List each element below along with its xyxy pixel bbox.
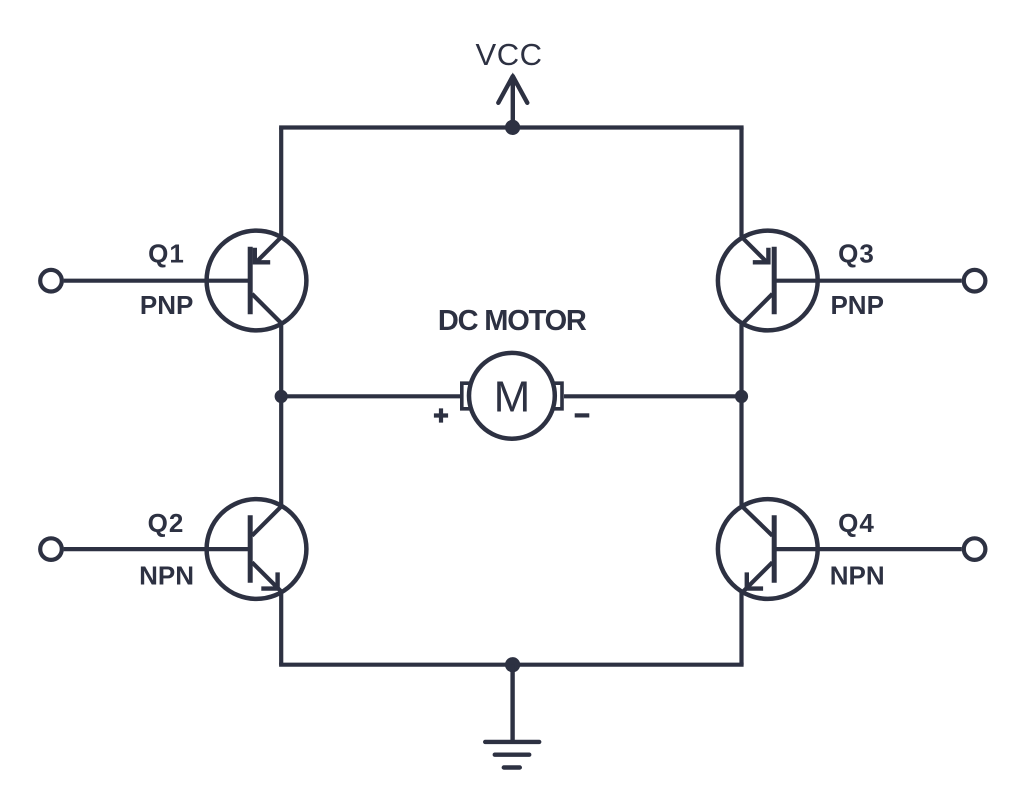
- wire right mid vertical (Q3 to node B): [739, 323, 743, 396]
- transistor Q2 (NPN, low-side left): [207, 499, 307, 599]
- Q1 collector diagonal: [252, 294, 283, 325]
- Q3 circle: [718, 231, 818, 331]
- Q4 collector diagonal: [741, 505, 772, 535]
- node A junction dot (left motor node): [275, 390, 288, 403]
- Q2 emitter arrow (points out): [261, 572, 277, 588]
- wire Q2 base lead: [64, 547, 250, 551]
- wire top VCC rail: [281, 125, 741, 129]
- svg-text:PNP: PNP: [140, 290, 193, 320]
- svg-text:Q3: Q3: [838, 238, 875, 268]
- svg-text:NPN: NPN: [830, 561, 885, 591]
- Q2 collector diagonal: [252, 505, 282, 535]
- Q4 base bar: [772, 515, 777, 582]
- wire left upper vertical (VCC to Q1 emitter): [279, 128, 283, 237]
- node ground junction dot: [505, 657, 520, 672]
- terminal input 4 (open circle): [964, 538, 986, 560]
- wire left lower vertical (node A to Q2): [279, 396, 283, 505]
- Q3 emitter arrow (points into base): [753, 248, 769, 262]
- svg-text:DC MOTOR: DC MOTOR: [438, 305, 587, 337]
- label plus polarity: [434, 408, 448, 422]
- wire bottom ground rail: [281, 663, 741, 667]
- wire right upper vertical (VCC to Q3 emitter): [739, 128, 743, 237]
- svg-text:M: M: [494, 373, 531, 422]
- label minus polarity: [575, 413, 590, 417]
- node VCC junction dot: [505, 120, 520, 135]
- Q3 collector diagonal: [742, 294, 773, 325]
- transistor Q1 (PNP, high-side left): [207, 231, 307, 331]
- terminal input 1 (open circle): [40, 270, 62, 292]
- Q1 emitter diagonal (from VCC side): [255, 236, 282, 263]
- Q3 emitter diagonal (from VCC side): [741, 236, 768, 263]
- terminal input 3 (open circle): [964, 270, 986, 292]
- Q4 emitter diagonal: [742, 562, 773, 593]
- motor right brush terminal: [553, 383, 562, 409]
- wire right lower vertical (node B to Q4): [739, 396, 743, 505]
- svg-text:NPN: NPN: [139, 561, 194, 591]
- Q4 circle: [718, 499, 818, 599]
- Q2 emitter diagonal: [252, 562, 283, 593]
- node B junction dot (right motor node): [735, 390, 748, 403]
- svg-text:Q4: Q4: [838, 508, 875, 538]
- wire motor right lead: [564, 394, 742, 398]
- svg-text:PNP: PNP: [830, 290, 883, 320]
- motor left brush terminal: [462, 383, 471, 409]
- wire motor left lead: [281, 394, 460, 398]
- svg-text:Q1: Q1: [148, 238, 185, 268]
- wire left mid vertical (Q1 to node A): [279, 323, 283, 396]
- transistor Q4 (NPN, low-side right): [718, 499, 818, 599]
- transistor Q3 (PNP, high-side right): [718, 231, 818, 331]
- wire Q3 base lead: [774, 279, 961, 283]
- wire Q1 base lead: [64, 279, 250, 283]
- ground symbol: [485, 742, 539, 768]
- Q1 emitter arrow (points into base): [255, 248, 270, 262]
- svg-text:Q2: Q2: [148, 508, 185, 538]
- Q4 emitter arrow (points out): [747, 572, 763, 588]
- wire right bottom vertical (Q4 to ground rail): [739, 592, 743, 665]
- motor body circle: [469, 353, 555, 439]
- terminal input 2 (open circle): [40, 538, 62, 560]
- wire left bottom vertical (Q2 to ground rail): [279, 592, 283, 665]
- Q1 circle: [207, 231, 307, 331]
- wire Q4 base lead: [774, 547, 961, 551]
- svg-text:VCC: VCC: [476, 37, 543, 72]
- wire ground stub: [510, 665, 514, 742]
- motor M1 (DC motor): [462, 353, 562, 439]
- Q2 circle: [207, 499, 307, 599]
- Q1 base bar: [248, 247, 253, 314]
- power VCC arrow: [498, 73, 527, 128]
- Q2 base bar: [248, 515, 253, 582]
- Q3 base bar: [772, 247, 777, 314]
